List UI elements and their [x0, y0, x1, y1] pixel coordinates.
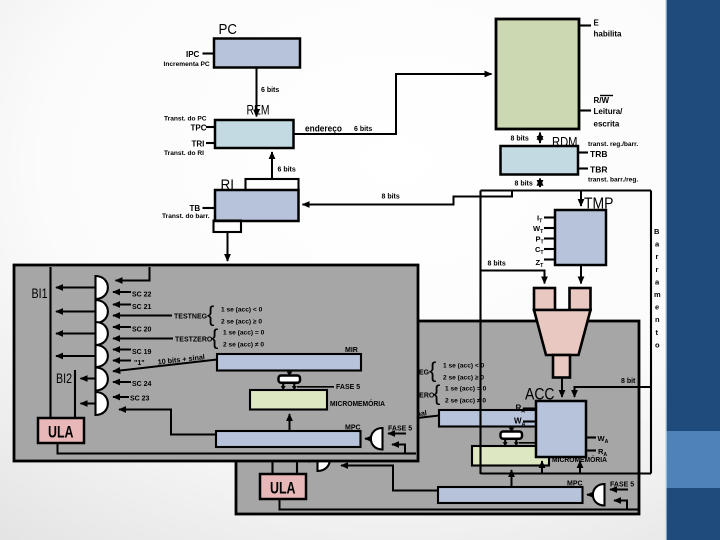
panel 2 (back copy) gray box [236, 321, 639, 514]
svg-text:Transt. do PC: Transt. do PC [164, 116, 207, 123]
wire ALU to ACC [561, 378, 563, 398]
svg-text:TBR: TBR [590, 165, 607, 175]
wire memory to RDM 8 bits [539, 133, 541, 144]
svg-text:B: B [654, 227, 660, 236]
svg-text:Leitura/: Leitura/ [594, 107, 624, 116]
pin PT [544, 237, 555, 239]
wire riser to ACC bottom right [579, 461, 581, 474]
svg-text:escrita: escrita [594, 120, 620, 129]
svg-text:8 bits: 8 bits [382, 194, 400, 201]
svg-text:6 bits: 6 bits [354, 126, 372, 133]
pin ZT [544, 258, 555, 260]
RI top sub-box [246, 179, 299, 190]
svg-text:TPC: TPC [191, 124, 207, 133]
svg-text:transt. reg./barr.: transt. reg./barr. [588, 141, 638, 148]
svg-text:REM: REM [247, 103, 270, 118]
ALU right input port [570, 288, 591, 310]
pin IT [544, 216, 555, 218]
wire bus down left branch 8 bits [479, 191, 481, 475]
pin WT [544, 227, 555, 229]
svg-text:8 bits: 8 bits [488, 261, 506, 268]
wire endereco REM to memory [294, 74, 492, 134]
svg-text:endereço: endereço [305, 124, 342, 134]
pin CT [544, 248, 555, 250]
wire branch to ALU left input [481, 271, 545, 284]
svg-text:E: E [594, 19, 600, 28]
wire bus to TMP [580, 191, 582, 207]
sidebar light blue segment [666, 431, 720, 488]
memory block [496, 19, 579, 129]
sidebar dark blue band [666, 0, 720, 540]
sidebar left edge highlight [665, 0, 667, 540]
wire TMP to ALU right input [580, 265, 582, 284]
svg-text:TB: TB [190, 204, 201, 213]
wire main bus horizontal [481, 189, 652, 191]
pin R/W leitura/escrita [579, 109, 591, 111]
svg-text:8 bit: 8 bit [621, 378, 636, 385]
ALU left input port [534, 288, 555, 310]
pin E habilita [579, 24, 591, 26]
svg-text:Transt. do RI: Transt. do RI [164, 150, 204, 157]
wire riser to ACC bottom left [541, 461, 543, 474]
svg-text:o: o [655, 340, 660, 349]
pin RA right [586, 449, 596, 451]
svg-text:Incrementa PC: Incrementa PC [164, 61, 210, 68]
svg-text:6 bits: 6 bits [261, 87, 279, 94]
wire barramento to ACC 8 bits [575, 387, 652, 397]
ALU output port [553, 355, 570, 378]
svg-text:PC: PC [219, 22, 238, 38]
svg-text:6 bits: 6 bits [278, 167, 296, 174]
svg-text:TRI: TRI [192, 140, 205, 149]
wire RDM to bus 8 bits [539, 179, 541, 188]
svg-text:n: n [655, 315, 660, 324]
svg-text:8 bits: 8 bits [515, 181, 533, 188]
svg-text:Transt. do barr.: Transt. do barr. [162, 213, 210, 220]
svg-text:r: r [656, 252, 659, 261]
ALU funnel body [534, 310, 591, 355]
wire barramento vertical [650, 191, 652, 474]
svg-text:8 bits: 8 bits [511, 136, 529, 143]
svg-text:e: e [655, 303, 659, 312]
svg-text:m: m [654, 290, 661, 299]
svg-text:habilita: habilita [594, 30, 623, 39]
panel 2 contents [254, 323, 639, 510]
svg-text:TRB: TRB [590, 149, 607, 159]
panel 1 contents [32, 267, 417, 454]
svg-text:IPC: IPC [186, 50, 200, 59]
pin WA right [586, 436, 596, 438]
svg-text:transt. barr./reg.: transt. barr./reg. [588, 177, 638, 184]
svg-text:r: r [656, 265, 659, 274]
svg-text:R/W: R/W [594, 96, 610, 105]
panel 1 gray box [14, 265, 418, 461]
RI bottom sub-box [214, 221, 242, 233]
wire bus to RI 8 bits [303, 191, 513, 205]
wire bottom return to barramento [481, 472, 652, 474]
wire RI to panel [227, 233, 229, 261]
wire PC to REM [256, 68, 258, 117]
wire RI to REM [271, 152, 273, 179]
